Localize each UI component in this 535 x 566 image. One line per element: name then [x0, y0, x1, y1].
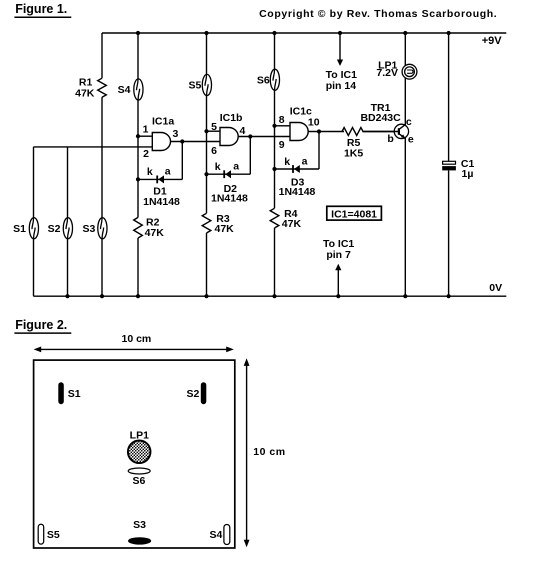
wire C1 to rail [448, 170, 450, 296]
wire R1 column upper [101, 33, 103, 78]
svg-text:e: e [408, 133, 414, 145]
svg-text:S5: S5 [188, 80, 201, 92]
junction bottom rail / C1 column [447, 294, 451, 298]
svg-text:5: 5 [211, 121, 217, 133]
resistor R2 [134, 217, 143, 238]
svg-text:1N4148: 1N4148 [279, 186, 316, 198]
wire lamp to collector [404, 78, 406, 125]
diode D1 [156, 176, 158, 184]
svg-text:47K: 47K [215, 223, 235, 235]
svg-text:1K5: 1K5 [344, 147, 363, 159]
svg-text:k: k [284, 156, 290, 168]
wire S3 column [101, 147, 103, 296]
svg-text:2: 2 [143, 148, 149, 160]
svg-text:8: 8 [279, 114, 285, 126]
sensor S3 [98, 218, 107, 239]
wire pin 8 stub [275, 125, 291, 127]
wire R2 to rail [137, 238, 139, 296]
svg-text:S6: S6 [257, 74, 270, 86]
svg-text:Copyright © by Rev. Thomas Sca: Copyright © by Rev. Thomas Scarborough. [259, 8, 497, 20]
transistor Q1 TR1 [394, 124, 408, 138]
svg-text:+9V: +9V [482, 35, 503, 47]
wire R1 column lower [101, 97, 103, 147]
svg-text:47K: 47K [145, 227, 165, 239]
svg-text:47K: 47K [282, 218, 302, 230]
svg-text:a: a [165, 166, 171, 178]
wire S1 column [33, 147, 35, 296]
svg-text:1N4148: 1N4148 [143, 196, 180, 208]
lamp LP1 [402, 64, 417, 79]
svg-text:S2: S2 [48, 223, 61, 235]
svg-text:3: 3 [173, 128, 179, 140]
junction node D1/S4 [136, 177, 140, 181]
sensor S6 [270, 69, 279, 90]
wire R4 to rail [274, 228, 276, 296]
svg-text:47K: 47K [75, 87, 95, 99]
sensor S2 (layout) [201, 382, 207, 404]
junction top rail / LP1 column [403, 31, 407, 35]
junction top rail / S6 column [272, 31, 276, 35]
svg-text:4: 4 [240, 125, 246, 137]
junction top rail / S5 column [204, 31, 208, 35]
svg-text:Figure 2.: Figure 2. [15, 318, 67, 332]
svg-text:10 cm: 10 cm [122, 333, 152, 345]
junction bottom rail / pin7 feed column [336, 294, 340, 298]
wire IC1c output [308, 131, 344, 133]
junction bottom rail / R2 column [136, 294, 140, 298]
dimension arrow 10cm horizontal [36, 348, 232, 350]
junction node IC1a output [180, 139, 184, 143]
svg-text:IC1a: IC1a [152, 116, 174, 128]
junction node IC1c output [317, 129, 321, 133]
wire 0V bottom rail [34, 295, 507, 297]
wire LP1/TR1 column top [404, 33, 406, 66]
AND gate IC1c [290, 123, 308, 141]
svg-text:10: 10 [308, 116, 320, 128]
svg-text:IC1=4081: IC1=4081 [331, 208, 377, 220]
enclosure square [34, 360, 235, 548]
wire IC1b output to D2 [249, 137, 251, 175]
resistor R1 [98, 78, 107, 97]
svg-text:1µ: 1µ [462, 168, 474, 180]
svg-text:Figure 1.: Figure 1. [15, 2, 67, 16]
wire emitter to rail [404, 138, 406, 296]
junction node D3/S6 [272, 167, 276, 171]
junction bottom rail / TR1 emitter column [403, 294, 407, 298]
sensor S5 [202, 74, 211, 95]
wire S6 column [274, 33, 276, 208]
junction node IC1b output [248, 134, 252, 138]
junction bottom rail / R3 column [204, 294, 208, 298]
svg-text:0V: 0V [489, 282, 502, 294]
resistor R4 [270, 208, 279, 228]
wire S2 column [67, 147, 69, 296]
wire input feed line [34, 146, 153, 148]
AND gate IC1a [152, 133, 170, 151]
diode D3 [292, 165, 294, 173]
svg-text:S3: S3 [133, 519, 146, 531]
junction node pin8/S6 [272, 124, 276, 128]
sensor S1 (layout) [58, 382, 64, 404]
wire S4 column [137, 33, 139, 217]
capacitor C1 [443, 161, 456, 164]
svg-text:S2: S2 [186, 388, 199, 400]
junction top rail / S4 column [136, 31, 140, 35]
wire +9V top rail [102, 32, 506, 34]
sensor S6 (layout) [128, 468, 150, 474]
svg-text:k: k [215, 161, 221, 173]
svg-text:a: a [302, 156, 308, 168]
svg-text:S4: S4 [118, 84, 131, 96]
svg-text:S1: S1 [68, 388, 81, 400]
svg-text:1N4148: 1N4148 [211, 193, 248, 205]
wire IC1a output [171, 141, 221, 143]
junction node pin1/S4 [136, 134, 140, 138]
svg-text:a: a [233, 161, 239, 173]
svg-text:b: b [387, 133, 393, 145]
junction top rail / C1 column [447, 31, 451, 35]
junction top rail / pin14 feed column [338, 31, 342, 35]
sensor S1 [29, 218, 38, 239]
wire IC1c output to D3 [318, 132, 320, 170]
wire S5 column [206, 33, 208, 213]
svg-text:6: 6 [211, 145, 217, 157]
wire IC1b output [238, 136, 290, 138]
svg-text:S1: S1 [13, 223, 26, 235]
wire IC1a output to D1 [181, 142, 183, 180]
wire pin 1 stub [138, 135, 152, 137]
junction bottom rail / R4 column [272, 294, 276, 298]
svg-text:k: k [147, 166, 153, 178]
wire to IC1 pin 14 arrow [339, 33, 341, 60]
junction bottom rail / S2 column [65, 294, 69, 298]
svg-text:pin 7: pin 7 [326, 249, 351, 261]
wire R3 to rail [206, 233, 208, 296]
svg-text:IC1b: IC1b [220, 112, 243, 124]
diode D2 [223, 170, 225, 178]
wire to IC1 pin 7 arrow [337, 270, 339, 296]
svg-text:c: c [406, 116, 412, 128]
wire R5 to base [363, 131, 399, 133]
svg-text:7.2V: 7.2V [376, 67, 398, 79]
svg-text:10 cm: 10 cm [253, 446, 285, 458]
svg-text:pin 14: pin 14 [326, 80, 357, 92]
svg-text:S4: S4 [210, 529, 223, 541]
wire C1 column top [448, 33, 450, 161]
junction node D2/S5 [204, 172, 208, 176]
dimension arrow 10cm vertical [246, 361, 248, 545]
svg-text:S6: S6 [132, 475, 145, 487]
resistor R5 [342, 128, 363, 136]
box IC1=4081 [327, 206, 382, 220]
junction node pin5/S5 [204, 129, 208, 133]
svg-text:BD243C: BD243C [360, 112, 401, 124]
sensor S4 [134, 79, 143, 100]
svg-text:S5: S5 [47, 529, 60, 541]
svg-text:1: 1 [143, 123, 149, 135]
svg-text:S3: S3 [82, 223, 95, 235]
resistor R3 [202, 213, 211, 233]
AND gate IC1b [220, 128, 238, 146]
sensor S4 (layout) [224, 525, 230, 545]
sensor S5 (layout) [38, 524, 44, 544]
sensor S2 [63, 218, 72, 239]
junction bottom rail / S3 column [100, 294, 104, 298]
wire pin 5 stub [207, 130, 221, 132]
svg-text:9: 9 [279, 139, 285, 151]
